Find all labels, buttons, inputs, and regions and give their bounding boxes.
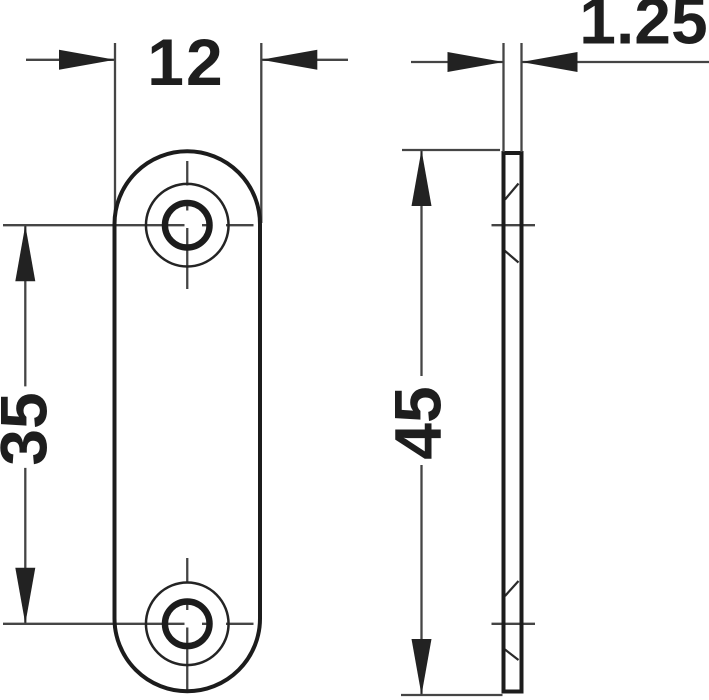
top hole bore circle — [165, 203, 210, 248]
dimension line 35 upper segment — [24, 225, 26, 386]
dimension line 45 lower segment — [420, 465, 422, 695]
front view plate outline — [115, 151, 261, 691]
side view countersink cone top hole upper edge — [505, 184, 519, 200]
arrowhead 12 right — [261, 50, 317, 70]
centerline V of bottom hole — [186, 558, 188, 692]
extension line left for 12 dim — [114, 43, 116, 223]
extension line right for 12 dim — [260, 43, 262, 223]
svg-text:12: 12 — [147, 25, 224, 99]
side view plate outline — [504, 153, 522, 692]
dimension line 1.25 left tail — [411, 61, 503, 63]
top hole countersink circle — [146, 184, 229, 267]
side view countersink cone top hole lower edge — [505, 251, 519, 263]
dimension line 12 right tail — [262, 59, 348, 61]
dimension line 1.25 right tail — [522, 61, 709, 63]
arrowhead 12 left — [59, 50, 115, 70]
extension line left for 1.25 dim — [502, 43, 504, 152]
side view centerline tick top hole — [492, 224, 536, 226]
svg-text:1.25: 1.25 — [579, 0, 707, 58]
arrowhead 1.25 right — [522, 52, 578, 72]
svg-text:45: 45 — [381, 386, 455, 459]
extension line top for 45 dim — [402, 149, 500, 151]
arrowhead 35 up — [15, 225, 35, 281]
arrowhead 1.25 left — [448, 52, 504, 72]
dimension line 45 upper segment — [420, 150, 422, 376]
dimension line 35 lower segment — [24, 468, 26, 624]
side view centerline tick bottom hole — [492, 623, 536, 625]
extension line bottom for 45 dim — [401, 694, 503, 696]
arrowhead 45 down — [412, 639, 432, 695]
centerline H of bottom hole / extension line for 35 dim — [3, 623, 254, 625]
centerline V of top hole — [186, 161, 188, 289]
side view countersink cone bottom hole upper edge — [505, 581, 519, 596]
svg-text:35: 35 — [0, 392, 61, 465]
bottom hole countersink circle — [146, 583, 229, 666]
arrowhead 35 down — [15, 568, 35, 624]
side view countersink cone bottom hole lower edge — [505, 650, 519, 661]
centerline H of top hole / extension line for 35 dim — [3, 224, 254, 226]
arrowhead 45 up — [412, 150, 432, 206]
bottom hole bore circle — [165, 602, 210, 647]
dimension line 12 left tail — [26, 59, 114, 61]
extension line right for 1.25 dim — [520, 43, 522, 152]
